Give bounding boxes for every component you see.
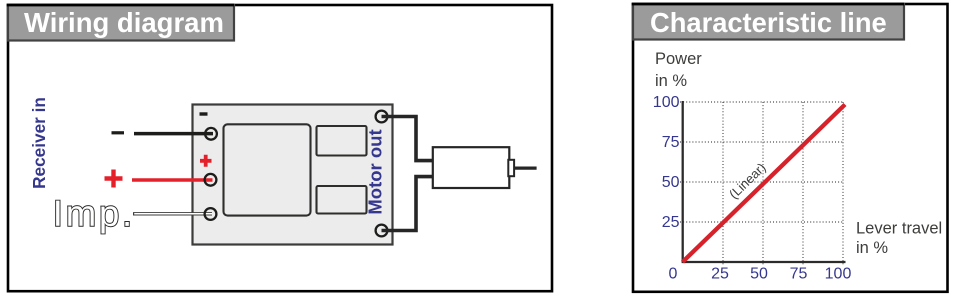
motor wire top bbox=[382, 117, 433, 161]
grid horizontal dotted lines bbox=[680, 102, 844, 222]
motor M1 body bbox=[433, 147, 510, 188]
svg-text:25: 25 bbox=[662, 214, 680, 231]
y axis bbox=[682, 101, 684, 262]
characteristic curve (red line) bbox=[683, 105, 846, 263]
svg-text:100: 100 bbox=[825, 265, 852, 282]
svg-text:Imp.: Imp. bbox=[53, 193, 135, 234]
board minus mark bbox=[200, 112, 208, 115]
x axis bbox=[682, 261, 846, 263]
svg-text:Wiring diagram: Wiring diagram bbox=[24, 7, 224, 38]
motor wire bottom bbox=[382, 177, 433, 231]
svg-text:50: 50 bbox=[750, 265, 768, 282]
svg-text:Characteristic line: Characteristic line bbox=[650, 7, 887, 38]
svg-text:Power: Power bbox=[655, 50, 702, 68]
panel top border over title bar bbox=[7, 4, 234, 7]
terminal pad L2 (positive) bbox=[205, 174, 217, 186]
terminal pad R2 (motor -) bbox=[376, 225, 388, 237]
svg-text:Lever travel: Lever travel bbox=[856, 220, 942, 238]
svg-text:75: 75 bbox=[790, 265, 808, 282]
svg-text:0: 0 bbox=[669, 265, 678, 282]
terminal pad L1 (negative) bbox=[205, 128, 217, 140]
plus polarity label bbox=[105, 170, 123, 188]
panel frame: wiring diagram bbox=[8, 5, 552, 291]
x axis tick labels bbox=[669, 265, 852, 282]
svg-text:Motor out: Motor out bbox=[365, 129, 386, 214]
svg-text:in %: in % bbox=[856, 239, 888, 257]
ESC board bbox=[193, 105, 393, 245]
title bar: Wiring diagram bbox=[8, 5, 234, 41]
panel frame: characteristic line bbox=[633, 4, 948, 292]
title bar: Characteristic line bbox=[633, 4, 904, 40]
grid vertical dotted lines bbox=[723, 102, 843, 266]
svg-text:100: 100 bbox=[653, 94, 680, 111]
svg-text:25: 25 bbox=[711, 265, 729, 282]
terminal pad R1 (motor +) bbox=[376, 111, 388, 123]
svg-text:in %: in % bbox=[655, 72, 687, 90]
negative wire bbox=[134, 132, 213, 136]
terminal pad L3 (impulse) bbox=[205, 208, 217, 220]
y axis tick labels bbox=[653, 94, 680, 231]
board plus mark bbox=[200, 155, 212, 167]
component block bottom bbox=[317, 186, 367, 214]
svg-text:50: 50 bbox=[662, 174, 680, 191]
svg-text:75: 75 bbox=[662, 134, 680, 151]
panel top border over title bar bbox=[632, 3, 904, 6]
component block top bbox=[317, 126, 367, 156]
impulse wire (thin, outlined) bbox=[133, 212, 212, 215]
positive wire bbox=[132, 178, 213, 182]
IC chip bbox=[224, 124, 311, 215]
minus polarity label bbox=[112, 131, 125, 134]
motor shaft bbox=[514, 167, 537, 170]
motor bushing bbox=[508, 160, 514, 176]
svg-text:Receiver in: Receiver in bbox=[29, 97, 49, 189]
